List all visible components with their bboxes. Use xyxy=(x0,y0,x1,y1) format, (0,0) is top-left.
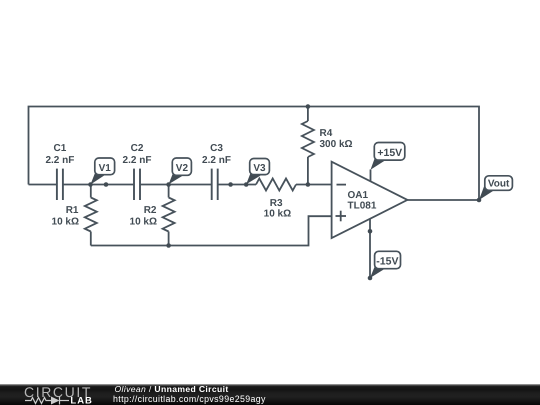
svg-text:R2: R2 xyxy=(144,205,157,216)
svg-text:LAB: LAB xyxy=(70,395,93,405)
svg-text:+15V: +15V xyxy=(377,147,402,159)
svg-text:Vout: Vout xyxy=(488,179,510,190)
svg-text:TL081: TL081 xyxy=(348,201,377,212)
svg-text:V1: V1 xyxy=(99,163,112,174)
svg-text:-15V: -15V xyxy=(376,256,398,268)
svg-text:2.2 nF: 2.2 nF xyxy=(202,155,231,166)
svg-text:10 kΩ: 10 kΩ xyxy=(264,209,291,220)
svg-text:R4: R4 xyxy=(320,128,333,139)
svg-text:OA1: OA1 xyxy=(348,190,369,201)
svg-text:C3: C3 xyxy=(210,143,223,154)
svg-text:C2: C2 xyxy=(131,143,144,154)
svg-text:10 kΩ: 10 kΩ xyxy=(130,217,157,228)
svg-text:10 kΩ: 10 kΩ xyxy=(52,217,79,228)
svg-text:R3: R3 xyxy=(270,198,283,209)
svg-text:V2: V2 xyxy=(176,163,189,174)
svg-text:300 kΩ: 300 kΩ xyxy=(320,139,353,150)
svg-text:C1: C1 xyxy=(54,143,67,154)
svg-text:R1: R1 xyxy=(66,205,79,216)
svg-text:V3: V3 xyxy=(253,163,266,174)
svg-text:2.2 nF: 2.2 nF xyxy=(123,155,152,166)
svg-text:2.2 nF: 2.2 nF xyxy=(45,155,74,166)
